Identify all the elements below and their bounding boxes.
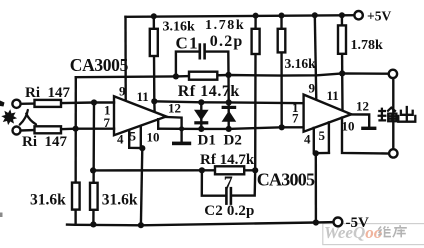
resistor Rf2 14.7k [215, 166, 244, 174]
wire output vertical [392, 78, 394, 149]
svg-text:Rf 14.7k: Rf 14.7k [200, 152, 255, 168]
op-amp U1 CA3005 [114, 96, 166, 135]
wire U2 pin4/5 box [314, 128, 329, 153]
svg-text:+5V: +5V [367, 9, 391, 24]
resistor Ri top 147 [35, 100, 62, 107]
svg-text:D1: D1 [198, 133, 216, 149]
wire U1 pin12 output [164, 117, 182, 142]
svg-text:12: 12 [356, 99, 369, 114]
svg-text:Ri 147: Ri 147 [22, 134, 68, 150]
wire pin9 right vertical [315, 15, 317, 100]
node pin11 junction [151, 98, 157, 104]
terminal input bottom [13, 127, 21, 135]
svg-text:9: 9 [119, 84, 126, 99]
node rail junction R4 [253, 13, 259, 19]
wire U1 pin5 to rail [141, 148, 142, 225]
svg-text:C1: C1 [176, 34, 199, 53]
wire vertical x94 from pin1 to feedback bottom and 31.6k [92, 103, 95, 225]
svg-text:3.16k: 3.16k [163, 20, 196, 35]
svg-text:CA3005: CA3005 [70, 55, 129, 75]
wire 3.16k R1 vertical to pin 11 [153, 16, 156, 111]
node U2 pin5 junction [313, 150, 319, 156]
node rail junction R5 [279, 13, 285, 19]
wire U1 pin10 box [157, 119, 159, 129]
terminal input top [12, 100, 20, 108]
wire U1 pin4/5 box [129, 130, 142, 148]
capacitor C1 loop [176, 52, 200, 77]
wire U2 pin12 output [349, 114, 369, 126]
svg-text:0.2p: 0.2p [210, 33, 244, 50]
node pin10/ground junction [179, 126, 184, 131]
diode D1 [194, 102, 209, 129]
node C2 right junction [252, 167, 258, 173]
capacitor C2 loop [202, 170, 226, 195]
ground bar U1 [172, 142, 191, 146]
wire pin11 right vertical [341, 73, 344, 110]
node R6 bottom junction [339, 70, 345, 76]
char shu [378, 108, 387, 122]
resistor R2 31.6k left [72, 183, 80, 210]
wire D2 to feedback [227, 75, 230, 103]
svg-text:31.6k: 31.6k [30, 191, 66, 208]
char wei [378, 227, 382, 236]
svg-text:10: 10 [342, 119, 355, 134]
node feedback bottom left [90, 167, 96, 173]
svg-text:3.16k: 3.16k [285, 56, 317, 71]
resistor Ri bottom 147 [35, 126, 62, 133]
wire feedback top Rf/C1 bus [76, 73, 389, 77]
wire +5V top rail [126, 15, 358, 17]
resistor R3 31.6k right [90, 183, 98, 210]
svg-text:Ri 147: Ri 147 [25, 85, 71, 101]
label output chinese shu-chu [378, 106, 416, 122]
node pin7 junction [73, 126, 79, 132]
svg-text:31.6k: 31.6k [102, 191, 138, 208]
node D2 top [226, 99, 232, 105]
svg-text:1.78k: 1.78k [351, 38, 384, 53]
wire pin1 left input [21, 103, 114, 104]
capacitor C1 plates [199, 45, 202, 59]
node rail junction pin9 right [312, 12, 318, 18]
edge artifact marks [0, 101, 5, 107]
node rail 31.6k right [90, 221, 96, 227]
wire R5 3.16k vertical [280, 16, 283, 128]
node D2 bottom [226, 126, 232, 132]
node rail pin5 right [313, 219, 319, 225]
node U1 pin5 junction [139, 145, 145, 151]
wire U2 pin10 to output terminal [342, 118, 389, 154]
svg-text:5: 5 [319, 128, 326, 143]
node C1 left junction [173, 73, 179, 79]
svg-text:11: 11 [327, 88, 339, 103]
capacitor C2 plates [225, 188, 228, 203]
svg-text:5: 5 [130, 129, 137, 144]
resistor R5 3.16k [278, 29, 286, 53]
svg-text:4: 4 [304, 132, 311, 147]
char chu [398, 106, 415, 122]
svg-text:4: 4 [117, 132, 124, 147]
svg-text:D2: D2 [224, 133, 242, 149]
node D1 top [198, 99, 204, 105]
char ku [393, 225, 407, 237]
terminal output bottom [389, 149, 397, 157]
svg-text:1.78k: 1.78k [205, 18, 245, 33]
node C1 right / D2 junction [225, 72, 231, 78]
node rail junction R1 [151, 13, 157, 19]
node pin7 right junction [279, 124, 285, 130]
resistor R1 3.16k [150, 29, 158, 56]
wire diode bottom bus to pin7 of U2 [158, 127, 303, 129]
op-amp U2 CA3005 [304, 95, 352, 132]
resistor R6 1.78k [338, 25, 346, 53]
wire R6 1.78k vertical [341, 15, 344, 73]
svg-text:7: 7 [224, 172, 233, 192]
svg-text:11: 11 [137, 89, 149, 104]
resistor R4 1.78k [252, 29, 260, 54]
watermark weiku glyphs [378, 225, 407, 237]
svg-text:Rf 14.7k: Rf 14.7k [178, 83, 240, 100]
node pin1 junction [91, 99, 97, 105]
svg-text:7: 7 [104, 115, 111, 130]
wire diode top bus to pin1 of U2 [154, 101, 303, 103]
ground bar U2 [361, 127, 376, 130]
resistor Rf1 14.7k [189, 72, 217, 80]
diode D2 [222, 102, 237, 128]
wire feedback bottom Rf2/C2 bus [93, 169, 255, 171]
wire -5V bottom rail [67, 222, 334, 225]
svg-text:7: 7 [292, 111, 299, 126]
input burst star [1, 109, 17, 125]
node D1 bottom [198, 126, 204, 132]
terminal output top [389, 70, 397, 78]
wire R4 1.78k vertical [254, 16, 257, 171]
wire U2 pin5 to rail [315, 153, 318, 222]
svg-text:CA3005: CA3005 [257, 170, 315, 190]
node rail pin5 left [138, 222, 144, 228]
wire pin7 left input [21, 129, 114, 131]
svg-text:12: 12 [168, 101, 181, 116]
node C2 left junction [199, 167, 205, 173]
svg-text:-5V: -5V [346, 215, 369, 231]
svg-text:C2 0.2p: C2 0.2p [204, 203, 254, 219]
node rail junction R6 [339, 12, 345, 18]
wire vertical x76 from feedback to pin7 and 31.6k [74, 77, 77, 225]
terminal -5V [334, 218, 343, 227]
terminal +5V [354, 11, 362, 19]
svg-text:9: 9 [309, 81, 316, 96]
watermark box [323, 224, 424, 245]
svg-text:10: 10 [147, 130, 160, 145]
wire pin9 left vertical [124, 17, 127, 101]
label input chinese ru [20, 110, 36, 125]
